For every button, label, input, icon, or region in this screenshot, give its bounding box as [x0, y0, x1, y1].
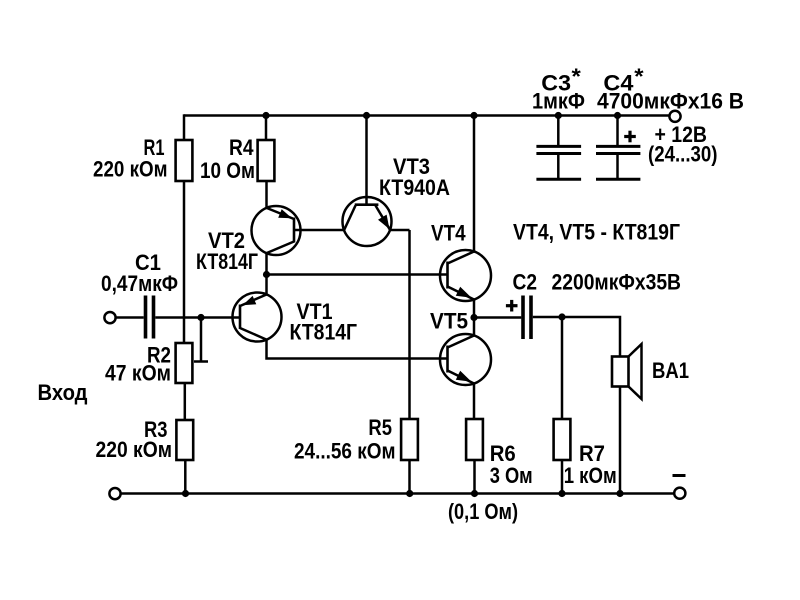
- transistor VT3: [343, 197, 392, 246]
- node input tap: [197, 314, 204, 321]
- resistor R3: [176, 420, 193, 460]
- node ground-R5: [406, 490, 413, 497]
- node C2-R7: [558, 313, 565, 320]
- transistor VT2: [252, 206, 301, 255]
- wire VT3 right lead: [390, 229, 410, 232]
- terminal ground right: [674, 488, 685, 499]
- resistor R5: [401, 419, 418, 460]
- svg-text:КТ814Г: КТ814Г: [196, 249, 258, 274]
- wire VT1 collector to VT5 base: [267, 340, 448, 359]
- wire VT4 emitter to VT5 collector: [473, 300, 476, 337]
- node rail-VT3: [363, 112, 370, 119]
- wire node to VT4 base: [267, 273, 448, 276]
- svg-text:R4: R4: [229, 135, 254, 160]
- resistor R7: [554, 419, 571, 460]
- plus C2: [506, 304, 518, 307]
- capacitor C3: [536, 116, 581, 180]
- svg-text:2200мкФх35В: 2200мкФх35В: [552, 270, 682, 295]
- svg-text:VT4, VT5 - КТ819Г: VT4, VT5 - КТ819Г: [513, 220, 680, 245]
- wire R2 to R3: [184, 383, 187, 421]
- node ground-R7: [558, 490, 565, 497]
- svg-text:0,47мкФ: 0,47мкФ: [101, 271, 178, 296]
- wire input to C1: [117, 316, 144, 319]
- node ground-R6: [471, 490, 478, 497]
- node rail-VT4: [470, 112, 477, 119]
- capacitor C1: [144, 296, 148, 339]
- wire R5 to ground rail: [408, 460, 411, 494]
- wire rail to VT3: [365, 116, 368, 206]
- wire rail to R1: [183, 114, 186, 141]
- wire output node to C2: [474, 316, 521, 319]
- svg-text:C2: C2: [513, 270, 538, 295]
- svg-text:10 Ом: 10 Ом: [200, 158, 255, 183]
- wire R7 top: [561, 317, 564, 420]
- svg-text:КТ940А: КТ940А: [379, 175, 450, 200]
- svg-text:(24...30): (24...30): [648, 142, 718, 167]
- svg-text:Вход: Вход: [38, 380, 88, 405]
- wire speaker to ground rail: [619, 387, 622, 494]
- svg-text:1 кОм: 1 кОм: [564, 463, 617, 488]
- svg-text:3 Ом: 3 Ом: [490, 463, 533, 488]
- wire VT3 to R5: [408, 230, 411, 420]
- node output: [470, 314, 477, 321]
- resistor R4: [258, 140, 275, 181]
- svg-text:220 кОм: 220 кОм: [96, 437, 173, 462]
- node ground-speaker: [616, 490, 623, 497]
- plus C4: [624, 135, 636, 138]
- transistor VT4: [440, 250, 491, 301]
- terminal input: [104, 312, 115, 323]
- wire R3 to ground rail: [184, 460, 187, 494]
- terminal ground left: [109, 488, 120, 499]
- transistor VT5: [440, 334, 491, 385]
- wire C2 to speaker: [533, 317, 620, 357]
- speaker BA1: [612, 344, 642, 399]
- wire C1 to VT1 base: [155, 316, 240, 319]
- svg-text:*: *: [572, 64, 582, 89]
- label minus: [673, 474, 686, 477]
- node VT2-VT1-R5drive: [263, 271, 270, 278]
- svg-text:BA1: BA1: [652, 358, 689, 383]
- svg-text:1мкФ: 1мкФ: [532, 89, 585, 114]
- svg-text:КТ814Г: КТ814Г: [290, 319, 358, 344]
- wire rail to R4: [265, 116, 268, 142]
- resistor R6: [466, 419, 483, 460]
- svg-text:47 кОм: 47 кОм: [105, 360, 171, 385]
- node ground-R3: [182, 490, 189, 497]
- wire +12V top rail: [184, 114, 669, 117]
- wire rail to VT4 collector: [473, 116, 476, 253]
- wire VT2 base to VT3: [294, 229, 345, 232]
- transistor VT1: [233, 293, 282, 342]
- wire R2 tap: [200, 318, 203, 362]
- wire R6 to ground rail: [473, 460, 476, 494]
- svg-text:(0,1 Ом): (0,1 Ом): [448, 499, 518, 524]
- svg-text:4700мкФх16 В: 4700мкФх16 В: [597, 89, 744, 114]
- node rail-R4: [262, 112, 269, 119]
- wire R4 to VT2: [265, 181, 268, 209]
- node rail-C3: [555, 112, 562, 119]
- wire ground bottom rail: [122, 492, 674, 495]
- svg-text:VT5: VT5: [430, 308, 468, 333]
- node rail-C4: [614, 112, 621, 119]
- svg-text:220 кОм: 220 кОм: [93, 157, 168, 182]
- svg-text:*: *: [634, 64, 644, 89]
- resistor R1: [176, 140, 193, 181]
- capacitor C2: [521, 296, 525, 340]
- wire VT5 emitter to R6: [473, 384, 476, 421]
- svg-text:R5: R5: [368, 415, 392, 440]
- resistor R2: [176, 343, 193, 383]
- terminal +12V: [669, 111, 680, 122]
- wire R1 to R2: [183, 181, 186, 344]
- svg-text:VT4: VT4: [431, 220, 466, 245]
- capacitor C4: [596, 116, 640, 180]
- svg-text:24...56 кОм: 24...56 кОм: [294, 439, 396, 464]
- wire VT2 collector down: [265, 253, 268, 295]
- wire R7 to ground rail: [561, 460, 564, 494]
